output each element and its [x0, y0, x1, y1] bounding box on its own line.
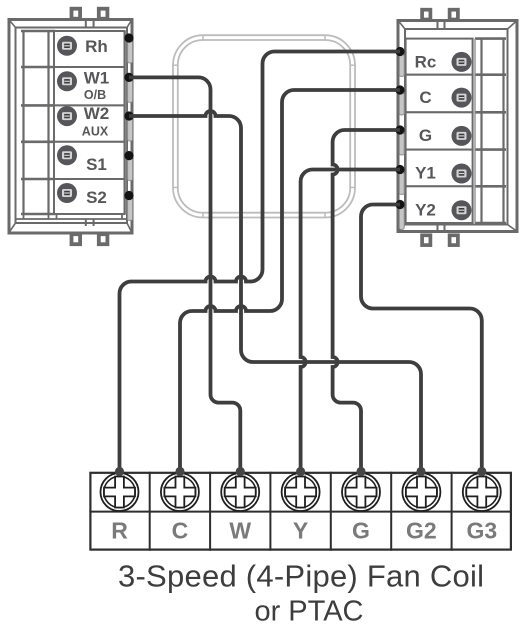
- node W1 dot: [124, 73, 133, 82]
- left block inner bottom shelf line: [16, 218, 128, 220]
- svg-text:Y: Y: [293, 518, 308, 544]
- right block top tab 1: [422, 10, 430, 20]
- svg-text:S1: S1: [86, 155, 107, 174]
- left block corner joint diagonals: [8, 19, 133, 235]
- left block ladder rail right: [47, 31, 49, 214]
- screw W: [221, 473, 259, 511]
- svg-text:Y1: Y1: [415, 164, 436, 183]
- node W wire dot: [236, 467, 245, 476]
- fan coil terminal strip: [90, 473, 511, 550]
- svg-text:3-Speed (4-Pipe) Fan Coil: 3-Speed (4-Pipe) Fan Coil: [118, 559, 484, 594]
- right block tab wall ticks top: [437, 21, 439, 29]
- svg-text:or PTAC: or PTAC: [254, 596, 363, 627]
- wire G to G: [333, 130, 400, 471]
- right block clamp G: [399, 133, 404, 155]
- terminal strip label row divider: [89, 511, 512, 513]
- right block clamp Y2: [399, 208, 404, 230]
- left block bottom tab 1: [72, 234, 81, 244]
- right block corner joint diagonals: [399, 21, 517, 231]
- wire W1 to W: [129, 77, 240, 471]
- wire Y2 to G3: [361, 205, 482, 472]
- right block ladder rail left: [480, 39, 482, 223]
- left block clamp S2: [128, 199, 133, 221]
- screw terminal Y2: [452, 200, 472, 220]
- left block ladder rail left: [22, 31, 24, 214]
- right block ladder rail right: [502, 39, 504, 223]
- left block clamp W2: [128, 119, 133, 141]
- node W2 dot: [124, 111, 133, 120]
- svg-text:G2: G2: [406, 518, 437, 544]
- svg-text:W1: W1: [84, 69, 110, 88]
- node Y1 dot: [395, 165, 404, 174]
- right block bottom tab 2: [450, 235, 458, 245]
- left block bottom tab 2: [99, 234, 108, 244]
- screw terminal C: [452, 88, 472, 108]
- wire Rc to R: [120, 52, 401, 472]
- screw terminal Rc: [452, 52, 472, 72]
- svg-text:S2: S2: [86, 188, 107, 207]
- svg-text:AUX: AUX: [82, 124, 109, 138]
- right block clamp Y1: [399, 173, 404, 195]
- node Y wire dot: [296, 467, 305, 476]
- node C dot: [395, 85, 404, 94]
- node G wire dot: [356, 467, 365, 476]
- right block clamp C: [399, 93, 404, 115]
- node R wire dot: [115, 467, 124, 476]
- svg-text:W: W: [229, 518, 251, 544]
- wire C to C: [180, 90, 400, 471]
- screw R: [101, 473, 139, 511]
- right block bottom tab 1: [422, 235, 430, 245]
- left terminal block U1 outer housing: [9, 20, 132, 234]
- node Rh dot: [124, 33, 133, 42]
- node G dot: [395, 125, 404, 134]
- thermostat outline outer: [173, 35, 355, 217]
- left block bottom compartment ticks: [24, 215, 123, 220]
- screw terminal W1: [57, 71, 77, 91]
- svg-text:Rh: Rh: [85, 37, 108, 56]
- node S1 dot: [124, 151, 133, 160]
- svg-text:Rc: Rc: [415, 53, 437, 72]
- left block clamp S1: [128, 159, 133, 181]
- screw G2: [402, 473, 440, 511]
- left block clamp rail: [125, 31, 127, 214]
- svg-text:G3: G3: [466, 518, 497, 544]
- screw terminal W2: [57, 106, 77, 126]
- right block clamp Rc: [399, 55, 404, 77]
- left block ladder rungs: [21, 31, 55, 214]
- node Y2 dot: [395, 200, 404, 209]
- screw terminal Rh: [57, 36, 77, 56]
- thermostat outline inner: [178, 40, 350, 213]
- node G2 wire dot: [416, 467, 425, 476]
- svg-text:G: G: [419, 126, 432, 145]
- wire W2 to G2: [129, 111, 421, 471]
- node Rc dot: [395, 47, 404, 56]
- left block terminal cells: [54, 31, 125, 214]
- screw G3: [463, 473, 501, 511]
- screw terminal S2: [57, 183, 77, 203]
- svg-text:C: C: [172, 518, 189, 544]
- left block tab wall ticks top: [85, 20, 87, 28]
- thermostat outline joint ticks: [173, 35, 355, 217]
- node S2 dot: [124, 191, 133, 200]
- right block terminal cells: [406, 39, 473, 223]
- screw C: [161, 473, 199, 511]
- wire Y1 to Y: [301, 170, 400, 472]
- screw terminal G: [452, 126, 472, 146]
- svg-text:R: R: [111, 518, 128, 544]
- left block clamp W1: [128, 80, 133, 102]
- screw Y: [282, 473, 320, 511]
- screw terminal Y1: [452, 164, 472, 184]
- right block tab wall ticks bottom: [437, 225, 439, 231]
- left block inner frame: [16, 28, 128, 224]
- right block top tab 2: [450, 10, 458, 20]
- left block tab wall ticks bottom: [85, 220, 87, 227]
- right block clamp rail: [474, 39, 476, 223]
- svg-text:W2: W2: [84, 104, 110, 123]
- svg-text:G: G: [352, 518, 370, 544]
- terminal strip cell dividers: [150, 472, 452, 551]
- right block inner frame: [405, 29, 508, 225]
- left block clamp Rh: [128, 41, 133, 63]
- right block ladder rungs: [475, 39, 506, 223]
- screw G: [342, 473, 380, 511]
- svg-text:C: C: [419, 88, 431, 107]
- svg-text:O/B: O/B: [84, 88, 106, 102]
- svg-text:Y2: Y2: [415, 200, 436, 219]
- left block top tab 1: [72, 9, 81, 19]
- node G3 wire dot: [477, 467, 486, 476]
- screw terminal S1: [57, 145, 77, 165]
- node C wire dot: [175, 467, 184, 476]
- right terminal block U2 outer housing: [398, 21, 517, 232]
- left block top tab 2: [99, 9, 108, 19]
